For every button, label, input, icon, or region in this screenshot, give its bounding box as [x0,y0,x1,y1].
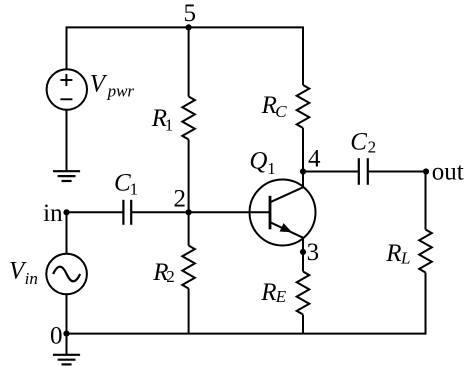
svg-text:R: R [260,279,276,306]
svg-text:0: 0 [50,322,63,349]
svg-text:out: out [432,158,464,185]
wire Vpwr bottom lead [66,110,68,172]
wire RC top lead [302,26,304,85]
wire node4 to C2 [303,171,359,173]
wire base: node 2 to Q1 base [189,211,271,213]
svg-text:1: 1 [130,180,139,199]
svg-text:Q: Q [249,148,267,175]
svg-text:C: C [275,102,287,121]
wire Vin bottom lead [66,294,68,333]
svg-text:in: in [25,269,38,288]
svg-text:R: R [385,240,401,267]
node in [43,200,69,227]
resistor RE [260,272,309,315]
resistor R2 [152,246,195,289]
svg-text:2: 2 [368,137,377,156]
wire R2 top lead [188,212,190,245]
capacitor C1 [114,169,138,224]
svg-text:L: L [400,248,410,267]
wire RL bottom lead [425,273,427,335]
node out [423,158,464,185]
svg-text:C: C [350,129,367,156]
svg-text:E: E [275,287,287,306]
node 5 [184,0,197,31]
wire out to RL top [425,172,427,230]
svg-text:2: 2 [173,185,186,212]
voltage source Vpwr [47,69,135,109]
wire top rail node5 [67,26,304,28]
wire RE top lead from node 3 [302,238,304,272]
svg-text:5: 5 [184,0,197,27]
node 2 [173,185,191,215]
transistor Q1 [249,148,315,246]
ground (under Vpwr) [53,171,80,181]
svg-text:V: V [90,70,108,97]
svg-text:1: 1 [165,116,174,135]
wire in to C1 [67,211,124,213]
wire R1 top lead [188,26,190,96]
wire C2 to out [368,171,427,173]
svg-text:1: 1 [267,159,276,178]
wire RE bottom lead [302,315,304,334]
resistor RL [385,230,432,273]
svg-text:C: C [114,169,131,196]
svg-text:3: 3 [307,239,320,266]
svg-text:4: 4 [308,145,321,172]
svg-text:in: in [43,200,63,227]
voltage source Vin (AC) [9,254,87,295]
resistor R1 [151,97,195,140]
wire RC bottom lead to node 4 [302,128,304,187]
wire Vin top lead [66,212,68,253]
node 4 [300,145,321,174]
wire R1 bottom lead [188,140,190,213]
wire R2 bottom lead [188,289,190,334]
ground (under node 0) [53,355,80,365]
capacitor C2 [350,129,376,185]
svg-text:pwr: pwr [107,81,135,100]
wire node0 to ground [66,334,68,355]
node 3 [300,239,319,266]
resistor RC [261,85,310,128]
wire bottom rail [67,333,426,335]
wire Vpwr top lead [66,26,68,69]
wire C1 to node 2 [131,211,188,213]
node 0 [50,322,70,349]
svg-text:2: 2 [166,267,175,286]
